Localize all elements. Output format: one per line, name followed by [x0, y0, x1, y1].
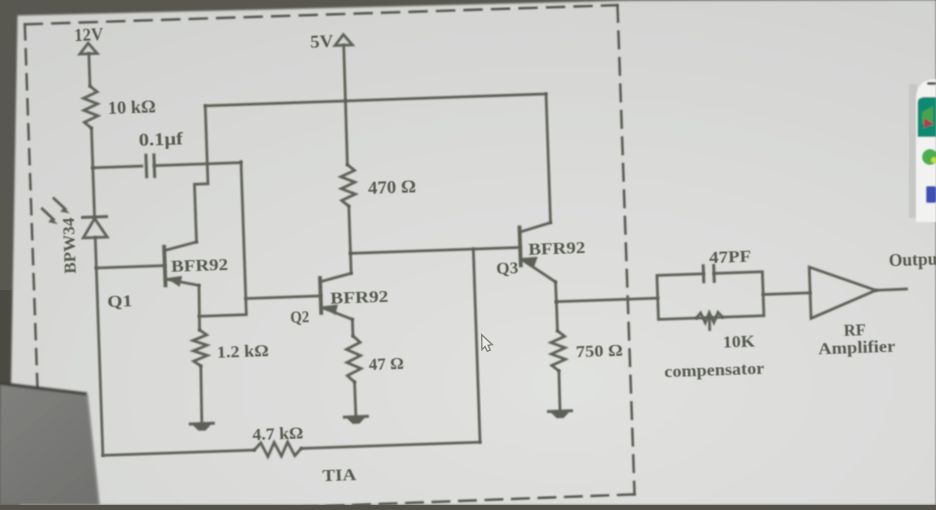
power 12V arrow	[79, 43, 97, 54]
svg-text:47PF: 47PF	[709, 247, 752, 267]
svg-text:Q2: Q2	[290, 307, 310, 327]
transistor Q3 BFR92	[519, 223, 555, 284]
wire bottom feedback rail right	[301, 442, 480, 448]
svg-text:Output: Output	[888, 249, 936, 271]
wire feedback vertical	[473, 249, 480, 442]
wire Q3 collector up to rail	[546, 94, 550, 223]
resistor 47 Ohm	[346, 336, 362, 383]
svg-text:Amplifier: Amplifier	[818, 337, 896, 359]
top rail wire	[205, 94, 546, 106]
svg-text:5V: 5V	[310, 31, 334, 52]
resistor 470 Ohm	[340, 165, 355, 207]
mouse cursor	[482, 335, 493, 352]
svg-text:Q1: Q1	[107, 291, 133, 311]
svg-text:12V: 12V	[74, 24, 104, 45]
svg-text:4.7 kΩ: 4.7 kΩ	[252, 423, 304, 444]
svg-text:compensator: compensator	[664, 359, 765, 381]
resistor 1.2 kOhm	[193, 330, 208, 366]
resistor 10 kOhm	[83, 86, 98, 128]
wire Q2 collector to rail junction	[349, 253, 352, 273]
wire R470 to Q2 collector junction	[349, 206, 351, 253]
capacitor 0.1uF	[146, 155, 155, 177]
svg-text:BFR92: BFR92	[171, 255, 229, 276]
wire R1.2k to ground	[200, 366, 203, 423]
wire Q1 collector up	[192, 106, 210, 242]
resistor 750 Ohm	[551, 331, 566, 371]
ground (output load)	[549, 411, 572, 419]
svg-text:BFR92: BFR92	[528, 238, 586, 259]
svg-text:BPW34: BPW34	[59, 217, 80, 274]
photodiode BPW34	[83, 217, 108, 238]
wire R47 to ground	[355, 382, 356, 416]
svg-text:10K: 10K	[722, 331, 755, 351]
wire 12V to R 10k	[89, 54, 90, 86]
wire R750 to ground	[559, 371, 561, 411]
wire amplifier output	[876, 289, 907, 290]
wire capacitor to node V3 top	[154, 163, 241, 166]
svg-text:Q3: Q3	[496, 258, 519, 278]
resistor 4.7 kOhm	[254, 441, 301, 457]
wire R 10k to node J1	[91, 128, 92, 168]
wire emitter junction to V3	[194, 162, 247, 317]
svg-text:750 Ω: 750 Ω	[576, 341, 624, 362]
svg-text:BFR92: BFR92	[330, 287, 389, 308]
wire Q1 emitter down	[198, 285, 201, 330]
wire base of Q1 from node J2	[96, 266, 164, 268]
capacitor 47PF	[703, 265, 714, 281]
wire node J2 down to bottom feedback rail	[96, 268, 103, 455]
compensator network box	[657, 272, 764, 320]
svg-text:47 Ω: 47 Ω	[368, 354, 404, 374]
light arrow 2 into BPW34	[42, 208, 58, 224]
wire rail Q2 collector to Q3 base	[350, 247, 520, 253]
ground (Q1 emitter)	[190, 423, 213, 431]
transistor Q2 BFR92	[320, 273, 353, 320]
wire node J1 down to photodiode	[93, 168, 95, 217]
light arrow 1 into BPW34	[54, 198, 70, 214]
node J1 / wire to capacitor	[93, 166, 142, 168]
svg-text:1.2 kΩ: 1.2 kΩ	[217, 341, 270, 362]
svg-text:TIA: TIA	[322, 465, 357, 485]
wire rail junction down to R470	[345, 101, 348, 165]
power 5V arrow	[335, 34, 353, 45]
wire V3 branch to Q2 base	[246, 296, 321, 299]
wire node J4 to compensator	[556, 298, 657, 302]
op-amp RF Amplifier	[809, 265, 876, 319]
svg-text:470 Ω: 470 Ω	[368, 176, 417, 198]
wire compensator to RF amplifier	[763, 293, 810, 295]
wire photodiode to node J2	[95, 237, 96, 267]
resistor 10K (in compensator)	[696, 312, 723, 330]
svg-text:10 kΩ: 10 kΩ	[107, 96, 156, 118]
wire Q3 emitter to output node J4	[554, 282, 558, 302]
wire Q2 emitter down	[351, 319, 354, 336]
svg-text:0.1μf: 0.1μf	[138, 128, 183, 150]
wire 5V down to rail	[344, 45, 346, 101]
transistor Q1 BFR92	[164, 242, 199, 287]
ground (Q2 emitter)	[344, 416, 367, 424]
wire node J4 down to R750	[556, 302, 557, 331]
wire bottom feedback rail left	[103, 450, 254, 455]
